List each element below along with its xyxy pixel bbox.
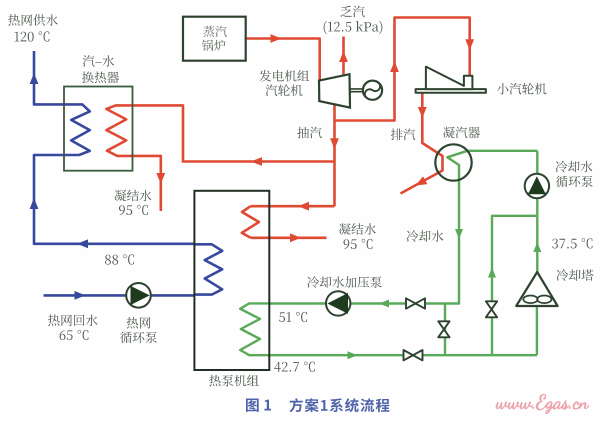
wire: condenser outlet to circulation pump riser	[467, 150, 537, 152]
coil: heat-exchanger red (steam) coil	[106, 105, 132, 155]
wire: boiler outlet steam to turbine inlet	[246, 39, 320, 81]
label: 小汽轮机	[497, 83, 547, 95]
wire: manifold to top-right loop feeding small turbine	[335, 18, 470, 121]
label: 120 C	[15, 31, 50, 41]
label: 冷却水循环泵	[556, 161, 593, 173]
label: 汽-水	[83, 55, 115, 67]
label: 发电机组	[260, 70, 310, 82]
arrows: red flow direction	[271, 34, 282, 43]
watermark: www.Egas.cn	[496, 394, 589, 413]
valve on bypass leg	[438, 321, 449, 337]
label: 蒸汽 (boiler)	[203, 26, 227, 37]
small steam turbine (小汽轮机)	[416, 67, 486, 93]
label: 排汽	[391, 129, 415, 141]
label: 冷却塔	[557, 269, 594, 281]
generator circle with S-curve	[363, 81, 382, 100]
caption: 图1 方案1系统流程	[246, 399, 271, 412]
wire: 42.7C line from heat pump to cooling tower	[269, 354, 537, 356]
label: 乏汽	[340, 6, 364, 18]
arrows: green flow direction	[455, 229, 463, 239]
wire: extraction steam into heat-pump generator	[251, 205, 335, 208]
label: 热泵机组	[209, 375, 259, 387]
label: 热网供水	[8, 14, 58, 26]
label: 冷却水加压泵	[307, 276, 382, 288]
steam-water heat exchanger box	[64, 87, 133, 171]
wire: extraction steam (抽汽) drop	[333, 121, 336, 207]
wire: extraction branch to steam-water heat exchanger	[132, 105, 335, 161]
label: 冷却水 (condenser outlet)	[407, 230, 444, 242]
coil: heat-pump blue (water) coil	[194, 244, 223, 294]
label: 锅炉 (boiler)	[202, 40, 225, 51]
wire: turbine exhaust down to manifold	[333, 105, 336, 121]
heat-network circulation pump (热网循环泵)	[126, 283, 151, 308]
wire: condensate 95C out of heat pump	[251, 237, 327, 240]
valve on 42.7C line	[404, 350, 423, 360]
wire: exhaust steam (乏汽) riser from turbine top	[342, 37, 345, 76]
label: 换热器	[82, 72, 119, 84]
label: 热网循环泵	[127, 317, 151, 329]
condenser circle (凝汽器)	[435, 144, 471, 180]
coil: heat-exchanger blue (water) coil	[64, 104, 90, 155]
cooling tower (冷却塔)	[516, 272, 557, 306]
label: 42.7 C	[274, 362, 315, 372]
label: 51 C	[279, 312, 307, 322]
label: 汽轮机	[266, 84, 303, 96]
label: 热网回水 65C	[48, 314, 98, 326]
valve on branch leg	[486, 301, 497, 317]
valve on 51C line	[406, 298, 425, 308]
arrows: blue flow direction	[30, 73, 39, 84]
label: 抽汽	[297, 127, 321, 139]
generator shaft	[351, 89, 363, 92]
wire: bypass leg between 51C and 42.7C lines	[444, 304, 446, 356]
wire: condenser internal tubes and 51C line to heat pump	[269, 151, 468, 304]
wire: cooling tower bottom leg	[536, 306, 538, 355]
label: 凝汽器	[443, 127, 480, 139]
cooling-water booster pump (冷却水加压泵)	[326, 291, 350, 315]
heat pump unit box	[194, 191, 269, 370]
wire: 120C heat supply riser	[34, 51, 64, 104]
wire: branch from pump line to valve leg	[492, 216, 537, 355]
label: 88 C	[105, 254, 134, 264]
wire: condensate 95C out of heat exchanger	[132, 156, 161, 211]
label: (12.5 kPa)	[324, 21, 383, 34]
label: 凝结水 95C (heat exchanger)	[115, 190, 152, 202]
cooling-water circulation pump (冷却水循环泵)	[525, 174, 549, 198]
coil: heat-pump red (steam) coil	[242, 206, 259, 238]
wire: circulation pump line down to cooling tower apex	[536, 151, 538, 272]
coil: heat-pump green (cooling water) coil	[240, 303, 269, 355]
wire: 65C heat-network return into heat pump	[44, 294, 194, 297]
wire: 88C water up into heat exchanger	[34, 155, 194, 244]
label: 37.5 C	[552, 238, 592, 248]
label: 凝结水 95C (heat pump)	[339, 223, 376, 235]
turbine of generator unit (trapezoid)	[319, 74, 350, 107]
steam boiler box	[183, 17, 246, 61]
wire: small turbine exhaust (排汽) to condenser	[401, 93, 443, 194]
